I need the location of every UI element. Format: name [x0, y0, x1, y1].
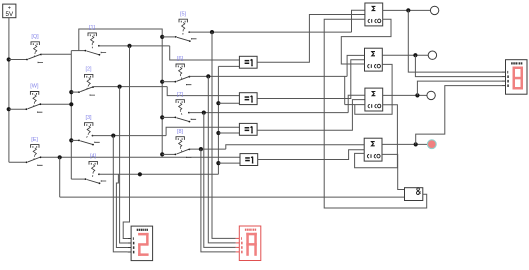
display B label [245, 229, 247, 231]
wire: drop to display B pin4 [204, 113, 236, 248]
full adder FA3 body [365, 88, 383, 111]
switch 1 actuator [91, 44, 93, 50]
wire: sum3 up to display C pin3 [417, 81, 502, 95]
switch 3 lever [78, 140, 80, 142]
node: pivot bus to switch 7 [160, 115, 164, 119]
node: bus to switch W [7, 107, 11, 111]
wire: column 2 feed bus [70, 51, 72, 180]
full adder FA4 CO label [374, 155, 376, 158]
switch Q actuator [34, 52, 35, 58]
svg-text:[4]: [4] [90, 154, 97, 160]
switch E throw mark [38, 165, 43, 166]
wire: top of invert bus to XOR1 input B [218, 65, 239, 67]
wire: drop to display B pin2 [208, 76, 236, 243]
wire: XOR2 output to adder2 input B [257, 60, 364, 99]
wire: adder4 CO to AND gate input 1 [382, 154, 404, 189]
wire: riser switch7 row to adder3 input A [348, 95, 365, 112]
display A digit 2 [138, 233, 149, 236]
svg-text:[8]: [8] [177, 129, 184, 135]
switch 2 actuator [86, 85, 89, 91]
full adder FA3 CO label [375, 104, 377, 107]
XOR gate U1 label =1 [245, 60, 250, 62]
switch E actuator [34, 155, 35, 161]
XOR gate U3 body [239, 123, 257, 135]
wire: stub to switch 5 [162, 36, 175, 38]
node: x71 bus to switch 2 [69, 90, 73, 94]
wire: power bus from V1 down left side [8, 18, 10, 163]
indicator lamp L3 [427, 91, 435, 99]
display A pin 2 [128, 242, 132, 244]
switch 1 spring [91, 36, 94, 43]
switch 5 actuator [182, 30, 184, 36]
wire: jog switch1 row down to XOR1 input A [170, 46, 240, 60]
node: switch 5 row to display B pin 1 [210, 30, 214, 34]
node: invert bus to XOR2 [216, 101, 220, 105]
XOR gate U2 label =1 [245, 96, 250, 98]
display C label [511, 62, 513, 64]
display B pin 4 [236, 246, 240, 248]
full adder FA1 CO label [375, 19, 377, 22]
display A pin 8 [128, 251, 132, 253]
switch 7 actuator [180, 110, 182, 116]
switch 4 lever [85, 178, 87, 180]
wire: XOR3 output to adder3 input B [257, 100, 365, 131]
switch E spring [33, 148, 36, 155]
switch 7 spring [179, 103, 182, 110]
switch W lever [26, 108, 28, 110]
display C digit 8 [513, 67, 524, 70]
5V power source V1 [3, 4, 16, 18]
wire: stub to switch 8 [162, 153, 175, 155]
display B pin 8 [236, 251, 240, 253]
switch 8 spring [179, 140, 182, 147]
node: sum1 tap [406, 8, 410, 12]
switch E handle [31, 145, 39, 148]
switch Q spring [34, 45, 37, 52]
wire: adder1 sum to lamp L1 [383, 9, 431, 11]
wire: adder2 CO to adder3 CI [355, 64, 392, 114]
wire: adder3 sum to lamp L3 [383, 94, 427, 96]
full adder FA1 CI label [368, 19, 370, 22]
switch 6 throw mark [186, 84, 191, 85]
wire: sum2 down to display C pin2 [415, 55, 502, 76]
wire: switch W output row [41, 103, 71, 105]
switch 5 spring [182, 22, 185, 29]
node: invert bus to XOR3 [216, 131, 220, 135]
svg-text:[6]: [6] [177, 56, 184, 62]
node: top of pivot bus [160, 35, 164, 39]
svg-text:[W]: [W] [30, 84, 39, 90]
switch 6 actuator [180, 75, 182, 81]
switch W handle [30, 92, 38, 95]
wire: bus to switch W pivot [9, 108, 27, 110]
switch 1 throw mark [101, 52, 106, 53]
svg-text:[7]: [7] [177, 92, 184, 98]
node: x71 bus to switch 3 [69, 138, 73, 142]
wire: XOR4 output to adder4 input B [258, 150, 365, 160]
wire: feed to switch 2 pivot [71, 91, 79, 93]
full adder FA2 CO label [375, 65, 377, 68]
switch 2 handle [85, 74, 93, 77]
wire: pivot bus for switches 5-8 [161, 37, 163, 154]
wire: adder4 sum to LED L4 [382, 143, 427, 145]
wire: invert bus to XOR4 input B [218, 162, 240, 164]
node: switch 3 row to display A pin 8 [111, 134, 115, 138]
display C pin 4 [502, 80, 506, 82]
svg-text:5V: 5V [6, 11, 14, 18]
AND gate U5 label [416, 188, 420, 195]
AND gate U5 body [405, 188, 423, 201]
full adder FA4 sigma label [372, 142, 375, 146]
node: sum3 tap [415, 93, 419, 97]
node: switch 2 row to display A pin 2 [118, 85, 122, 89]
full adder FA4 CI label [367, 155, 369, 158]
node: invert bus to XOR4 [216, 161, 220, 165]
display A pin 1 [128, 238, 132, 240]
XOR gate U2 body [239, 93, 257, 105]
wire: adder2 sum to lamp L2 [382, 54, 428, 56]
XOR gate U3 label =1 [245, 127, 250, 129]
switch 1 handle [88, 33, 96, 36]
wire: sum1 down to display C pin1 [408, 10, 502, 72]
svg-text:[3]: [3] [85, 115, 92, 121]
full adder FA1 body [365, 3, 383, 26]
wire: stub to switch 7 [162, 116, 175, 118]
XOR gate U1 body [239, 56, 257, 68]
switch 3 handle [85, 123, 93, 126]
BCD 7-segment display C body [506, 60, 528, 94]
node: W row joins column 2 bus [69, 102, 73, 106]
display A pin 4 [128, 247, 132, 249]
node: sum2 tap [413, 53, 417, 57]
full adder FA2 CI label [368, 65, 370, 68]
node: sum4 tap [414, 142, 418, 146]
node: switch 1 row to display A pin 1 [127, 44, 131, 48]
node: pivot bus to switch 8 [160, 152, 164, 156]
wire: drop to display B pin1 [212, 32, 236, 238]
svg-text:[2]: [2] [85, 67, 92, 73]
display B pin 1 [236, 237, 240, 239]
switch Q handle [31, 42, 39, 45]
node: switch 7 row to display B pin 4 [202, 111, 206, 115]
wire: branch from switch6 row down to adder3 CI [344, 76, 346, 104]
node: switch 6 row to display B pin 2 [206, 74, 210, 78]
wire: E row drop to AND line [59, 157, 61, 197]
node: pivot bus to switch 6 [160, 80, 164, 84]
wire: switch 1 output row [99, 45, 170, 47]
node: E row tap to AND line [58, 155, 62, 159]
switch 2 spring [87, 78, 90, 85]
wire: switch 6 output row [189, 75, 347, 77]
wire: drop to display A pin1 [123, 46, 129, 239]
svg-text:[E]: [E] [31, 137, 38, 143]
full adder FA3 sigma label [372, 92, 375, 96]
switch E lever [26, 161, 28, 163]
wire: x71 bus to switch 4 pivot [71, 178, 85, 180]
wire: drop to display A pin2 [120, 87, 128, 243]
display A label [137, 229, 139, 231]
switch Q throw mark [38, 62, 43, 63]
wire: jog above switch 1 [71, 50, 85, 52]
switch 8 throw mark [186, 157, 191, 158]
display C pin 8 [502, 85, 506, 87]
BCD 7-segment display B body [239, 226, 260, 261]
switch 8 handle [176, 137, 184, 140]
indicator LED L4 (lit) [427, 140, 436, 149]
indicator lamp L1 [430, 6, 438, 14]
switch 6 spring [179, 67, 182, 74]
node: bus to switch Q [7, 57, 11, 61]
wire: invert bus to XOR2 input B [218, 102, 239, 104]
full adder FA3 CI label [368, 104, 370, 107]
wire: switch 4 output row to invert bus [99, 173, 218, 175]
full adder FA2 sigma label [372, 52, 375, 56]
switch 6 lever [175, 81, 177, 83]
wire: switch 7 output row [189, 112, 348, 114]
wire: sum4 up and over to display C pin4 [416, 86, 502, 145]
svg-text:[Q]: [Q] [31, 34, 39, 40]
wire: riser from Q to top run [79, 29, 162, 51]
wire: jog switch 8 row up to adder4 input A [226, 145, 364, 149]
node: switch 4 row junction [138, 172, 142, 176]
wire: feed to switch 3 pivot [71, 139, 79, 141]
svg-text:[1]: [1] [89, 25, 96, 31]
switch W spring [33, 95, 36, 102]
wire: switch E output row direct to XOR4 input A [41, 156, 240, 158]
switch 4 handle [89, 161, 97, 164]
switch 5 throw mark [192, 38, 197, 39]
switch 1 lever [85, 50, 87, 52]
wire: XOR1 output to adder1 input B [257, 15, 365, 63]
wire: switch 5 output row [189, 31, 352, 33]
full adder FA4 body [364, 138, 382, 161]
wire: drop to display B pin8 [201, 149, 236, 252]
wire: switch Q output row [41, 53, 71, 55]
wire: jog switch3 row up to XOR3 input A [166, 127, 239, 135]
BCD 7-segment display A body [131, 226, 153, 261]
wire: adder3 CO to adder4 CI [355, 105, 398, 168]
switch 4 throw mark [101, 180, 106, 181]
full adder FA2 body [365, 48, 383, 71]
switch 7 lever [175, 117, 177, 119]
wire: riser switch5 row to adder1 input A [352, 10, 365, 32]
wire: jog switch2 row down to XOR2 input A [167, 87, 239, 96]
display B digit A [246, 233, 256, 236]
full adder FA1 sigma label [372, 6, 375, 10]
indicator lamp L2 [428, 51, 436, 59]
switch 5 lever [175, 36, 177, 38]
switch 5 handle [179, 19, 187, 22]
switch Q lever [26, 59, 28, 61]
switch 8 actuator [180, 147, 182, 153]
switch 4 actuator [92, 172, 95, 178]
node: switch 8 row to display B pin 8 [199, 147, 203, 151]
wire: drop to display A pin8 [113, 136, 127, 252]
display C pin 2 [502, 76, 506, 78]
switch 7 throw mark [191, 119, 196, 120]
wire: AND output end-around carry to adder1 CI [324, 19, 427, 208]
wire: adder1 CO to adder2 CI [341, 19, 391, 64]
display B pin 2 [236, 242, 240, 244]
wire: switch 2 output row [93, 86, 167, 88]
switch 8 lever [175, 154, 177, 156]
switch 4 spring [92, 165, 95, 172]
switch W actuator [33, 102, 34, 108]
display C pin 1 [502, 71, 506, 73]
wire: invert bus riser from switch 4 row [217, 66, 219, 174]
XOR gate U4 body [240, 154, 258, 166]
svg-text:[5]: [5] [180, 11, 187, 17]
XOR gate U4 label =1 [245, 157, 250, 159]
switch 3 spring [87, 126, 90, 133]
switch 7 handle [176, 100, 184, 103]
wire: stub to switch 6 [162, 81, 175, 83]
switch 2 throw mark [90, 94, 95, 95]
wire: bus to switch E pivot [9, 161, 27, 163]
wire: drop to display A pin4 [116, 174, 127, 247]
wire: invert bus to XOR3 input B [218, 132, 239, 134]
switch 3 throw mark [95, 142, 100, 143]
wire: switch 3 output row [93, 135, 167, 137]
wire: long line to AND gate input 2 [60, 196, 405, 198]
wire: riser switch6 row to adder2 input A [347, 55, 364, 76]
switch 6 handle [176, 64, 184, 67]
wire: switch 8 output row [189, 148, 225, 150]
switch 2 lever [78, 91, 80, 93]
wire: bus to switch Q pivot [9, 59, 27, 61]
switch W throw mark [37, 112, 42, 113]
switch 3 actuator [86, 133, 89, 139]
